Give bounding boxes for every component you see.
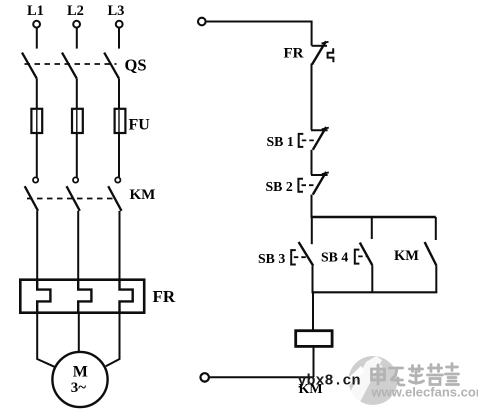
button SB1 blade — [313, 127, 329, 150]
button SB2 actuator bracket — [298, 179, 303, 192]
label KM (aux contact) — [394, 248, 419, 264]
svg-text:L2: L2 — [67, 3, 84, 19]
fuse FU 1 — [31, 109, 42, 133]
KM main contact 2 blade — [67, 186, 80, 211]
watermark chinese characters — [372, 364, 459, 386]
wire bus to SB4 — [371, 217, 373, 239]
svg-text:SB 3: SB 3 — [258, 251, 285, 266]
wire L3 terminal to QS — [118, 28, 120, 49]
svg-text:KM: KM — [130, 187, 156, 203]
top bus of parallel branch — [311, 216, 436, 219]
wire L1 terminal to QS — [36, 28, 38, 49]
button SB2 actuator dashed link — [302, 184, 314, 186]
button SB3 actuator dashed link — [294, 256, 306, 258]
motor M — [52, 352, 107, 407]
wire FR to motor phase 1 — [37, 313, 54, 367]
wire junction to SB3 — [311, 217, 313, 244]
svg-text:L1: L1 — [27, 3, 44, 19]
wire L2 terminal to QS — [76, 28, 78, 49]
switch QS pole 3 blade — [104, 53, 119, 79]
KM main contact 1 blade — [25, 186, 38, 211]
watermark www.elecfans.com — [371, 385, 478, 400]
svg-text:www.elecfans.com: www.elecfans.com — [371, 385, 478, 400]
label SB4 — [321, 250, 348, 265]
fuse FU 2 — [72, 109, 83, 133]
wire bus to KM aux contact — [435, 217, 437, 240]
label L2 — [67, 3, 84, 19]
svg-text:M: M — [73, 364, 88, 381]
wire FR to motor phase 3 — [106, 313, 120, 367]
watermark ybx8.cn — [298, 373, 361, 390]
wire top horizontal — [206, 22, 312, 46]
button SB4 actuator bracket — [355, 250, 360, 264]
terminal L2 — [73, 21, 80, 28]
label SB3 — [258, 251, 285, 266]
label FR (overload) — [153, 287, 176, 306]
control terminal top — [198, 18, 206, 26]
wire SB1 to SB2 — [311, 150, 313, 175]
button SB4 blade — [360, 243, 373, 266]
wire SB4 to bottom bus — [371, 265, 373, 292]
QS linkage dashed line — [25, 63, 117, 65]
wire QS to FU phase 1 — [36, 79, 38, 109]
bottom bus of parallel branch — [312, 291, 438, 293]
svg-text:3~: 3~ — [71, 380, 87, 396]
KM main contact 2 pivot circle — [73, 177, 78, 182]
label L1 — [27, 3, 44, 19]
FR thermal release hook — [328, 48, 334, 62]
label KM (main contacts) — [130, 187, 156, 203]
wire FU to KM phase 2 — [76, 133, 78, 177]
terminal L1 — [33, 21, 40, 28]
wire FR to motor phase 2 — [78, 313, 80, 353]
FR heater element 1 — [37, 280, 50, 313]
KM main contact 3 pivot circle — [115, 177, 120, 182]
button SB1 seat — [311, 129, 328, 131]
svg-text:SB 1: SB 1 — [267, 134, 294, 149]
button SB1 actuator bracket — [299, 134, 304, 147]
svg-text:FU: FU — [129, 117, 151, 134]
KM main contact 3 blade — [108, 186, 121, 211]
FR contact blade — [312, 41, 329, 64]
thermal relay FR box — [20, 280, 144, 313]
button SB4 actuator dashed link — [358, 255, 366, 257]
svg-text:L3: L3 — [108, 3, 125, 19]
wire bottom horizontal — [209, 376, 314, 378]
button SB3 actuator bracket — [291, 250, 296, 264]
terminal L3 — [116, 21, 123, 28]
label SB1 — [267, 134, 294, 149]
wire KM to FR phase 3 — [119, 211, 121, 280]
label FR (contact) — [284, 46, 304, 62]
label FU — [129, 117, 151, 134]
button SB3 blade — [299, 242, 314, 266]
svg-text:FR: FR — [153, 287, 176, 306]
wire FU to KM phase 3 — [118, 133, 120, 177]
switch QS pole 1 blade — [22, 53, 37, 79]
label SB2 — [266, 179, 293, 194]
KM main contact 1 pivot circle — [33, 177, 38, 182]
wire SB3 to bottom bus — [312, 266, 314, 293]
KM aux contact blade — [425, 242, 437, 265]
button SB2 seat — [311, 174, 328, 176]
FR heater element 2 — [78, 280, 91, 313]
svg-text:QS: QS — [125, 56, 147, 75]
wire QS to FU phase 2 — [76, 79, 78, 109]
fuse FU 3 — [115, 109, 126, 133]
watermark mouse logo — [329, 356, 398, 405]
KM coil — [296, 331, 332, 347]
switch QS pole 2 blade — [62, 53, 77, 79]
label QS — [125, 56, 147, 75]
wire bus to KM coil — [312, 292, 314, 331]
FR heater element 3 — [120, 280, 133, 313]
svg-text:SB 4: SB 4 — [321, 250, 348, 265]
wire KM aux to bottom bus — [435, 265, 437, 292]
svg-text:KM: KM — [299, 382, 323, 397]
wire FR contact to SB1 — [311, 64, 313, 131]
button SB1 actuator dashed link — [302, 139, 314, 141]
label L3 — [108, 3, 125, 19]
label KM (coil) — [299, 382, 323, 397]
svg-text:SB 2: SB 2 — [266, 179, 293, 194]
svg-text:FR: FR — [284, 46, 304, 62]
wire KM to FR phase 1 — [36, 211, 38, 280]
svg-text:KM: KM — [394, 248, 419, 264]
control terminal bottom — [201, 373, 209, 381]
wire KM to FR phase 2 — [77, 211, 79, 280]
wire SB2 to junction — [311, 195, 313, 218]
button SB2 blade — [313, 172, 329, 195]
FR contact seat — [312, 45, 327, 47]
wire coil to bottom — [313, 346, 315, 377]
KM linkage dashed line — [27, 198, 115, 200]
wire QS to FU phase 3 — [118, 79, 120, 109]
wire FU to KM phase 1 — [36, 133, 38, 177]
